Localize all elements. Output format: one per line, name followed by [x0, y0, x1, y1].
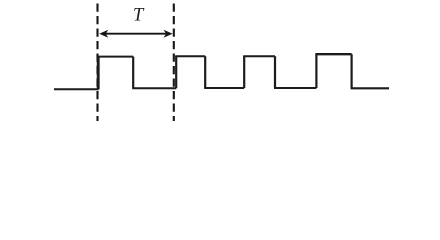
- wire: initial low segment: [54, 88, 99, 90]
- period arrow shaft: [102, 33, 170, 35]
- wire: pulse 3 falling edge: [274, 56, 276, 88]
- arrowhead right: [164, 30, 173, 38]
- wire: pulse 2 falling edge: [204, 56, 206, 88]
- svg-text:T: T: [133, 6, 145, 26]
- wire: low segment 2-3: [204, 87, 244, 89]
- wire: low segment 3-4: [274, 87, 316, 89]
- wire: pulse 1 falling edge: [132, 57, 134, 89]
- wire: pulse 2 high segment: [175, 55, 205, 57]
- wire: pulse 4 rising edge: [315, 54, 317, 88]
- wire: pulse 4 high segment: [315, 53, 351, 55]
- wire: pulse 3 high segment: [243, 55, 275, 57]
- wire: pulse 1 rising edge: [97, 57, 100, 90]
- wire: pulse 3 rising edge: [243, 56, 245, 88]
- wire: pulse 2 rising edge: [175, 56, 177, 88]
- dashed vertical line right (period end marker): [173, 4, 175, 122]
- wire: final low segment: [351, 87, 389, 89]
- wire: pulse 4 falling edge: [351, 54, 353, 88]
- wire: low segment 1-2: [132, 87, 176, 89]
- dashed vertical line left (period start marker): [96, 4, 98, 122]
- wire: pulse 1 high segment: [98, 56, 134, 58]
- arrowhead left: [99, 30, 108, 38]
